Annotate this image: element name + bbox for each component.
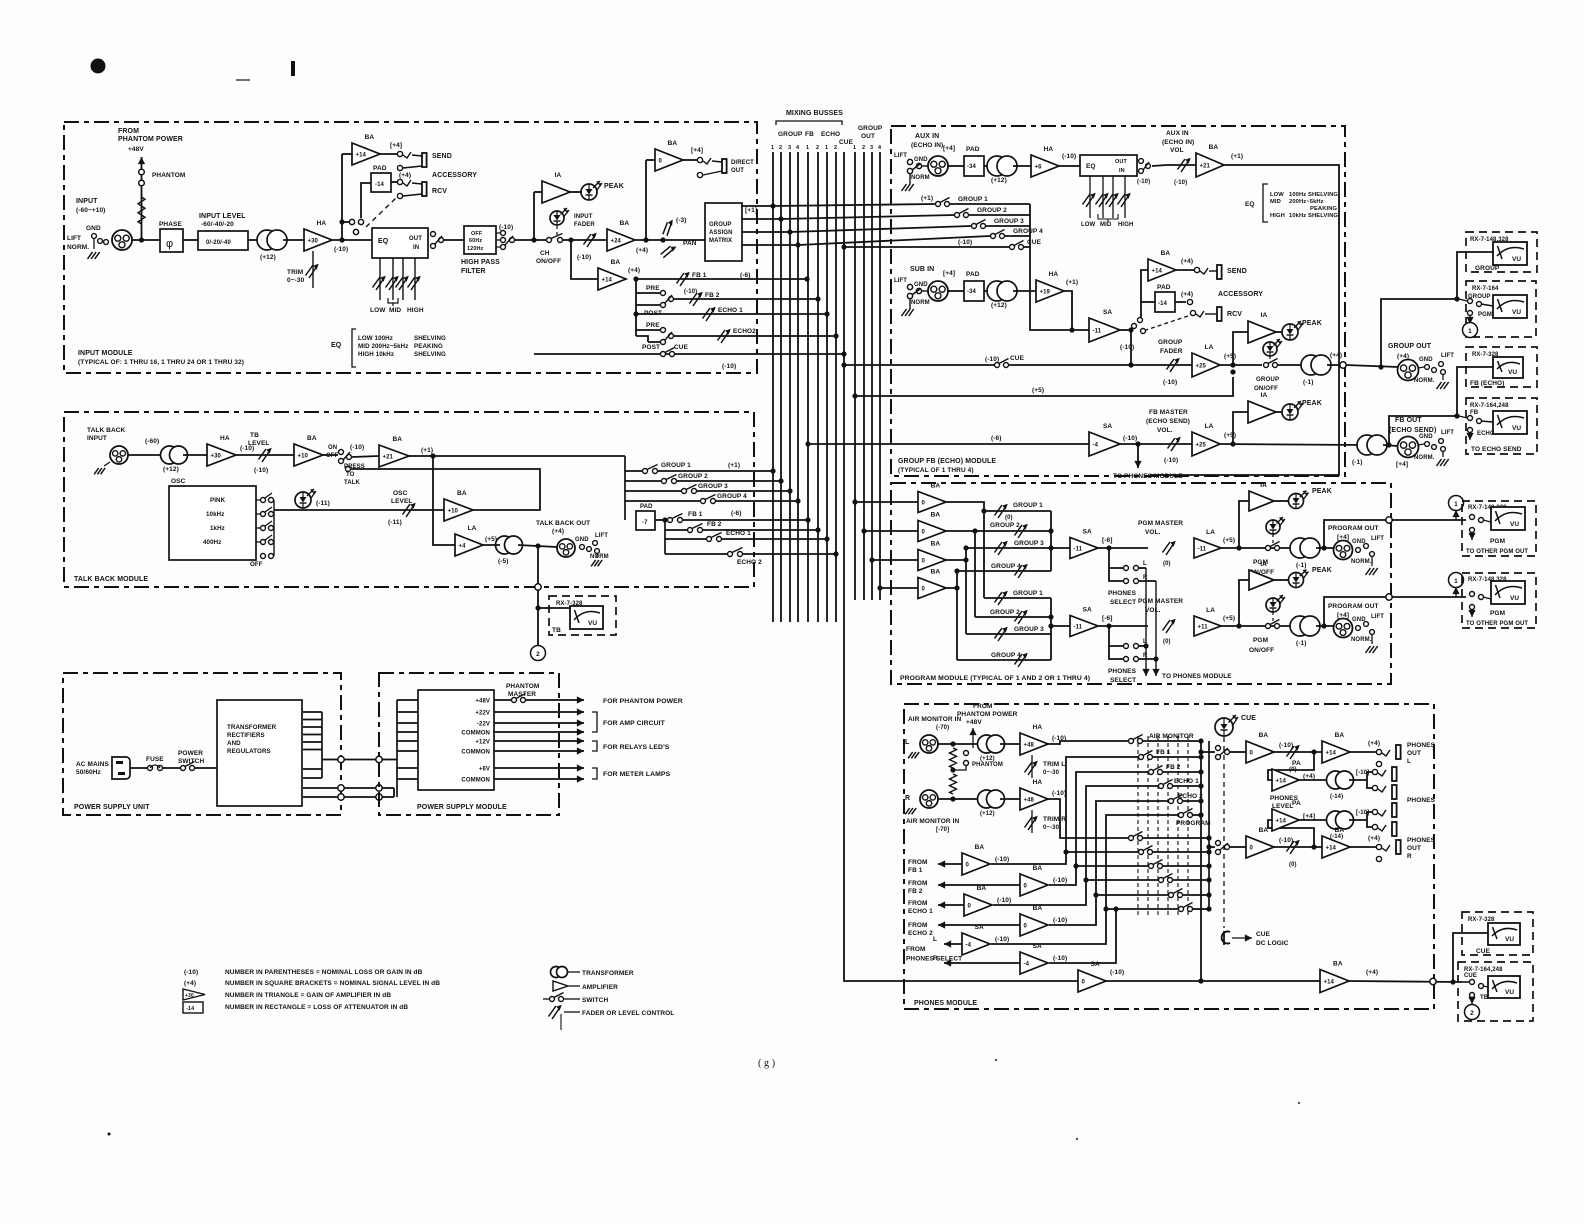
svg-text:SELECT: SELECT xyxy=(1110,599,1136,606)
svg-text:BA: BA xyxy=(975,844,985,851)
amp SA program 2 xyxy=(1070,607,1113,637)
switch tb FB 2 xyxy=(688,521,722,533)
wire aux out loop xyxy=(1150,165,1339,475)
svg-text:[+4]: [+4] xyxy=(390,142,402,149)
switch osc OFF xyxy=(250,554,274,569)
svg-text:-4: -4 xyxy=(966,942,972,948)
meter VU tb xyxy=(552,606,603,634)
meter VU group/pgm xyxy=(1493,295,1527,318)
svg-text:(+12): (+12) xyxy=(991,302,1007,309)
label tb group1 +1 xyxy=(728,462,740,469)
switch phones L AIR MONITOR xyxy=(1129,733,1194,744)
block input level attenuator xyxy=(198,231,248,250)
node circled 1 pgm 1 xyxy=(1449,496,1464,511)
amp BA2 +24 xyxy=(607,220,648,254)
connector sub in XLR xyxy=(928,270,955,301)
node direct out branch xyxy=(643,237,648,242)
svg-text:REGULATORS: REGULATORS xyxy=(227,748,271,755)
stray dash xyxy=(236,79,250,81)
meterbox RX-7-164,248 CUE xyxy=(1458,962,1533,1021)
svg-text:BA: BA xyxy=(668,140,678,147)
svg-text:ON/OFF: ON/OFF xyxy=(536,258,561,265)
svg-text:2: 2 xyxy=(1470,1010,1474,1017)
svg-text:GROUP 4: GROUP 4 xyxy=(991,652,1021,659)
fader ECHO1 xyxy=(703,307,744,321)
svg-text:CH: CH xyxy=(540,250,550,257)
svg-text:LIFT: LIFT xyxy=(595,533,608,539)
bus FB 2 xyxy=(817,152,819,622)
svg-text:[-70]: [-70] xyxy=(936,827,949,833)
label PHONES jacks xyxy=(1407,797,1436,804)
wire fb meter feed xyxy=(1389,413,1460,445)
jack RCV sleeve xyxy=(397,193,422,198)
svg-text:PRE: PRE xyxy=(646,322,660,329)
wire pgm2 row GROUP 1 xyxy=(984,597,1051,599)
label POST echo2 xyxy=(642,344,660,351)
svg-text:(+5): (+5) xyxy=(1224,432,1236,439)
connector GROUP OUT XLR xyxy=(1398,360,1419,381)
svg-text:MID 200Hz~5kHz: MID 200Hz~5kHz xyxy=(358,343,408,350)
wire circled arrow 2 xyxy=(1452,587,1459,597)
amp LA fb +25 xyxy=(1192,423,1236,456)
svg-text:(+4): (+4) xyxy=(552,528,564,535)
amp IA fb xyxy=(1248,392,1276,423)
wire air L to HA xyxy=(1000,743,1020,745)
amp BA tb2 +21 xyxy=(379,436,433,467)
bus ECHO 1 xyxy=(826,152,828,622)
stray handwriting xyxy=(758,1058,775,1069)
ground group out xyxy=(1437,382,1449,389)
svg-text:BA: BA xyxy=(620,220,630,227)
led channel on indicator xyxy=(550,208,569,225)
amp BA sub send +14 xyxy=(1148,250,1193,281)
svg-text:RCV: RCV xyxy=(1227,311,1242,318)
label air monitor R xyxy=(905,795,959,833)
svg-text:SHELVING: SHELVING xyxy=(414,335,446,342)
svg-text:+4: +4 xyxy=(459,543,467,549)
svg-text:MID: MID xyxy=(1100,222,1112,228)
svg-text:POWER SUPPLY UNIT: POWER SUPPLY UNIT xyxy=(74,804,150,811)
svg-text:FB MASTER: FB MASTER xyxy=(1149,409,1188,416)
svg-text:PHONES: PHONES xyxy=(1108,590,1137,597)
jack phones upper a xyxy=(1372,767,1396,781)
switch pgm out lift 2 xyxy=(1356,622,1375,644)
wire cue to mix xyxy=(1009,364,1131,366)
fader PAN upper xyxy=(660,217,687,237)
amp SA program 1 xyxy=(1070,529,1113,559)
svg-text:FROM: FROM xyxy=(118,128,139,135)
label for phantom power xyxy=(603,698,683,705)
bus GROUP OUT 2 xyxy=(863,152,865,600)
wire psu stub 7 xyxy=(303,768,322,770)
node psu out a xyxy=(338,756,344,762)
switch osc 10kHz xyxy=(256,507,274,517)
bracket EQ aux mid xyxy=(1098,214,1118,222)
svg-text:IN: IN xyxy=(1119,168,1125,174)
svg-text:(-5): (-5) xyxy=(498,558,509,565)
svg-text:PGM: PGM xyxy=(1490,610,1505,617)
svg-text:(-10): (-10) xyxy=(997,897,1011,904)
svg-text:PRE: PRE xyxy=(646,285,660,292)
switch tb ECHO 2 xyxy=(728,548,763,567)
meter VU cue xyxy=(1476,923,1520,955)
wire cue fader row xyxy=(841,355,1024,368)
fader TRIM L xyxy=(1025,755,1066,778)
svg-text:FB 2: FB 2 xyxy=(908,888,923,895)
wire psm out 723 xyxy=(494,719,584,726)
amp HA air R +48 xyxy=(1020,779,1066,810)
wire LA2 out xyxy=(1221,623,1294,628)
fader EQ MID a xyxy=(386,258,399,300)
svg-text:+6V: +6V xyxy=(479,767,490,773)
block EQ aux xyxy=(1080,155,1137,176)
fader pgm2 GROUP 2 xyxy=(990,609,1028,624)
svg-text:BA: BA xyxy=(1259,732,1269,739)
svg-text:+48V: +48V xyxy=(475,699,490,705)
bracket mixing busses xyxy=(776,121,842,125)
wire tb row GROUP 1 xyxy=(625,468,776,473)
svg-text:1: 1 xyxy=(825,145,828,151)
svg-text:ECHO2: ECHO2 xyxy=(733,328,756,335)
svg-text:MID: MID xyxy=(389,307,401,314)
switch phones L FB 2 xyxy=(1149,764,1181,775)
wire program input 4 xyxy=(877,585,918,590)
svg-text:TALK BACK: TALK BACK xyxy=(87,427,126,434)
wire xfmr to HA aux xyxy=(1013,165,1031,167)
svg-text:GROUP 1: GROUP 1 xyxy=(661,462,691,469)
svg-text:FUSE: FUSE xyxy=(146,756,164,763)
svg-text:DIRECT: DIRECT xyxy=(731,160,754,166)
svg-text:(-10): (-10) xyxy=(1053,877,1067,884)
wire matrix out 3 to bus/select xyxy=(741,226,971,235)
svg-text:GROUP 3: GROUP 3 xyxy=(698,483,728,490)
svg-text:NUMBER IN SQUARE BRACKETS = NO: NUMBER IN SQUARE BRACKETS = NOMINAL SIGN… xyxy=(225,980,440,987)
wire collector to L select xyxy=(1198,749,1215,754)
svg-text:200Hz~5kHz: 200Hz~5kHz xyxy=(1289,199,1324,205)
svg-text:BA: BA xyxy=(1259,827,1269,834)
wire from echo2 xyxy=(908,921,1020,937)
jack SEND sleeve xyxy=(397,165,477,179)
svg-text:VOL.: VOL. xyxy=(1145,529,1161,536)
svg-text:+12V: +12V xyxy=(475,740,490,746)
svg-text:GROUP: GROUP xyxy=(778,131,803,138)
switch aux select GROUP 3 xyxy=(972,218,1025,229)
label talk back out xyxy=(536,520,590,535)
wire pad to rcv xyxy=(391,172,411,182)
wire pgm1 row GROUP 4 xyxy=(957,570,1051,572)
svg-text:LIFT: LIFT xyxy=(1371,536,1384,542)
svg-text:NORM.: NORM. xyxy=(1351,559,1372,565)
svg-text:(-1): (-1) xyxy=(1296,562,1307,569)
bus GROUP OUT 1 xyxy=(854,152,856,600)
fader EQ HIGH xyxy=(407,258,424,314)
wire pad feed xyxy=(361,183,371,218)
wire phones R row 1 xyxy=(1143,835,1212,840)
label sub in xyxy=(910,266,934,273)
svg-text:(-10): (-10) xyxy=(1120,344,1134,351)
wire tb contact arrow xyxy=(1468,997,1475,1004)
svg-text:FADER: FADER xyxy=(574,222,595,228)
svg-text:SA: SA xyxy=(1103,309,1112,316)
svg-text:POWER SUPPLY MODULE: POWER SUPPLY MODULE xyxy=(417,804,507,811)
svg-text:-22V: -22V xyxy=(477,722,490,728)
svg-text:(-6): (-6) xyxy=(731,510,742,517)
amp BA program 4 xyxy=(918,569,946,599)
svg-text:FROM: FROM xyxy=(908,900,928,907)
svg-text:OFF: OFF xyxy=(471,231,483,237)
label pgm master vol 2 xyxy=(1138,598,1183,614)
wire cue to BA xyxy=(1106,980,1320,982)
svg-text:SEND: SEND xyxy=(1227,268,1247,275)
svg-text:ON/OFF: ON/OFF xyxy=(1249,647,1274,654)
wire HA to EQ aux xyxy=(1059,165,1080,167)
svg-text:SA: SA xyxy=(1083,607,1092,614)
svg-text:HIGH 10kHz: HIGH 10kHz xyxy=(358,351,394,358)
node input fader branch xyxy=(568,237,573,242)
wire fb send branch xyxy=(571,240,598,279)
svg-text:(-10): (-10) xyxy=(995,856,1009,863)
svg-text:FROM: FROM xyxy=(908,859,928,866)
svg-text:(ECHO SEND): (ECHO SEND) xyxy=(1146,418,1190,425)
svg-text:50/60Hz: 50/60Hz xyxy=(76,769,102,776)
svg-text:TO OTHER PGM OUT: TO OTHER PGM OUT xyxy=(1466,549,1528,555)
wire psm out 712 xyxy=(494,708,584,715)
legend EQ input module xyxy=(331,329,446,367)
svg-text:(-10): (-10) xyxy=(1062,153,1076,160)
svg-text:OFF: OFF xyxy=(326,453,339,459)
fader AUX VOL xyxy=(1167,158,1196,186)
wire BA1 fan xyxy=(946,502,987,598)
wire matrix out 2 to bus/select xyxy=(741,215,954,222)
wire EQ aux out xyxy=(1152,165,1167,166)
switch tb GROUP 1 xyxy=(643,462,692,474)
switch phones L FB 1 xyxy=(1139,749,1171,760)
switch group insert xyxy=(1132,318,1143,329)
svg-text:VOL.: VOL. xyxy=(1157,427,1173,434)
bus GROUP OUT 4 xyxy=(879,152,881,600)
block PAD tb -7 xyxy=(636,504,655,530)
jack DIRECT OUT xyxy=(697,157,754,177)
svg-text:ECHO: ECHO xyxy=(821,131,840,138)
svg-text:(-10): (-10) xyxy=(1164,457,1178,464)
svg-text:RX-7-328: RX-7-328 xyxy=(1468,917,1495,923)
meterbox RX-7-328 CUE xyxy=(1462,912,1533,955)
label fb master vol xyxy=(1146,409,1190,434)
switch osc 1kHz xyxy=(256,521,274,531)
svg-text:(-10): (-10) xyxy=(1163,379,1177,386)
svg-text:ACCESSORY: ACCESSORY xyxy=(1218,291,1263,298)
meterbox RX pgm 1 xyxy=(1462,501,1536,556)
meterbox RX-7-328 FB xyxy=(1466,347,1537,387)
svg-text:VOL: VOL xyxy=(1170,147,1184,154)
svg-text:VU: VU xyxy=(1510,595,1519,602)
wire tb la feed xyxy=(433,456,455,545)
wire HPF to CH switch xyxy=(514,239,547,241)
wire ba L fader xyxy=(1274,749,1322,754)
svg-text:LIFT: LIFT xyxy=(894,278,907,284)
connector FB OUT XLR xyxy=(1398,437,1419,458)
connector AIR MON L XLR xyxy=(920,735,938,753)
amp BA aux +21 xyxy=(1196,144,1243,177)
svg-text:SA: SA xyxy=(1033,943,1042,950)
switch osc PINK xyxy=(256,493,274,503)
svg-text:(+12): (+12) xyxy=(163,466,179,473)
svg-text:NORM.: NORM. xyxy=(1414,378,1435,384)
svg-text:FB 1: FB 1 xyxy=(908,867,923,874)
switch pgm meter 2 xyxy=(1470,592,1492,610)
fader pgm1 GROUP 1 xyxy=(995,502,1044,518)
svg-text:LIFT: LIFT xyxy=(894,153,907,159)
label tb level xyxy=(248,432,269,447)
svg-text:PEAK: PEAK xyxy=(1312,488,1332,495)
svg-text:-34: -34 xyxy=(967,164,977,170)
legend parentheses xyxy=(184,969,423,976)
wire to phones arrows xyxy=(1142,568,1232,680)
svg-text:NORM.: NORM. xyxy=(1414,455,1435,461)
svg-text:0~-30: 0~-30 xyxy=(1043,825,1060,831)
svg-text:FOR RELAYS LED'S: FOR RELAYS LED'S xyxy=(603,744,670,751)
svg-text:[+4]: [+4] xyxy=(943,145,955,152)
svg-text:TRANSFORMER: TRANSFORMER xyxy=(227,724,277,731)
wire sub to SA xyxy=(1064,291,1072,330)
amp BA from fb1 xyxy=(962,844,1009,875)
legend transformer xyxy=(551,967,634,978)
svg-text:HA: HA xyxy=(220,435,230,442)
fader TRIM R xyxy=(1025,810,1067,833)
svg-text:VU: VU xyxy=(1510,521,1519,528)
led PEAK group xyxy=(1282,320,1322,340)
fader FB2 xyxy=(690,292,720,306)
switch tb GROUP 4 xyxy=(701,493,748,504)
wire tb row GROUP 3 xyxy=(625,488,793,493)
svg-text:L: L xyxy=(933,936,937,943)
wire program input 3 xyxy=(869,557,918,562)
wire aux xlr to pad xyxy=(948,165,964,167)
input module label xyxy=(78,350,244,366)
svg-text:PHONES MODULE: PHONES MODULE xyxy=(914,1000,977,1007)
wire air R to HA xyxy=(1000,798,1020,800)
jack phones lower b xyxy=(1372,822,1396,836)
svg-text:1: 1 xyxy=(806,145,809,151)
svg-text:TRANSFORMER: TRANSFORMER xyxy=(582,970,634,977)
svg-text:TB: TB xyxy=(552,627,561,634)
switch aux lift xyxy=(907,159,929,184)
svg-text:CUE: CUE xyxy=(674,344,689,351)
fader TB LEVEL xyxy=(236,448,294,474)
svg-text:AIR MONITOR IN: AIR MONITOR IN xyxy=(906,818,959,825)
block EQ input xyxy=(372,228,428,258)
svg-text:GROUP 3: GROUP 3 xyxy=(1014,626,1044,633)
wire pgm feed L xyxy=(991,815,1178,944)
svg-text:IA: IA xyxy=(1261,392,1268,399)
amp BA program 1 xyxy=(918,483,946,513)
svg-text:LA: LA xyxy=(1206,607,1215,614)
svg-text:(+4): (+4) xyxy=(1303,773,1315,780)
switch press to talk xyxy=(339,450,365,487)
svg-text:GND: GND xyxy=(1419,357,1433,363)
block PAD sub2 -14 xyxy=(1155,284,1175,312)
wire psu stub 5 xyxy=(303,741,322,743)
connector PROGRAM OUT XLR 1 xyxy=(1328,525,1379,560)
switch aux select GROUP 2 xyxy=(955,207,1008,218)
node pan xyxy=(660,237,665,242)
wire program input 1 xyxy=(852,499,918,504)
label tb out gnd xyxy=(575,533,609,560)
svg-text:(+4): (+4) xyxy=(399,172,411,179)
svg-text:SA: SA xyxy=(1103,423,1112,430)
wire tb meter drop xyxy=(535,546,549,645)
ground tb out xyxy=(591,560,602,566)
group fb module label xyxy=(898,458,996,474)
svg-text:-4: -4 xyxy=(1024,961,1030,967)
switch HPF select xyxy=(496,231,515,250)
svg-text:BA: BA xyxy=(1335,827,1345,834)
switch tb FB 1 xyxy=(668,511,703,523)
svg-text:GROUP: GROUP xyxy=(858,125,883,132)
wire from fb1 xyxy=(908,859,962,874)
connector aux in XLR xyxy=(928,145,955,176)
svg-text:(+4): (+4) xyxy=(1368,835,1380,842)
node psm in b xyxy=(376,785,382,791)
label high pass filter xyxy=(461,224,513,275)
wire cue select xyxy=(841,244,1030,249)
svg-text:SA: SA xyxy=(1083,529,1092,536)
wire group vu feed xyxy=(1457,252,1493,299)
svg-text:TALK BACK MODULE: TALK BACK MODULE xyxy=(74,576,148,583)
svg-text:(+4): (+4) xyxy=(1181,258,1193,265)
svg-text:FROM: FROM xyxy=(908,922,928,929)
svg-text:BA: BA xyxy=(931,512,941,519)
svg-text:FB 1: FB 1 xyxy=(688,511,703,518)
svg-text:GROUP 3: GROUP 3 xyxy=(1014,540,1044,547)
led pgm on 2 xyxy=(1266,595,1285,612)
phones module frame xyxy=(904,704,1434,1009)
switch aux select GROUP 4 xyxy=(991,228,1044,239)
svg-text:(+5): (+5) xyxy=(1032,387,1044,394)
wire psu stub 8 xyxy=(303,777,322,779)
svg-text:DC LOGIC: DC LOGIC xyxy=(1256,940,1289,947)
wire IA2 feed xyxy=(1239,580,1249,626)
block phase xyxy=(159,221,183,252)
svg-text:PEAK: PEAK xyxy=(604,183,624,190)
amp SA sub -11 xyxy=(1089,309,1134,351)
svg-text:L: L xyxy=(1143,561,1147,567)
svg-text:1: 1 xyxy=(1454,501,1458,508)
bus FB 1 xyxy=(807,152,809,622)
svg-text:-11: -11 xyxy=(1198,546,1207,552)
svg-text:+14: +14 xyxy=(1276,818,1287,824)
svg-text:TO: TO xyxy=(346,472,355,478)
svg-text:0: 0 xyxy=(1250,750,1254,756)
meterbox RX pgm 2 xyxy=(1462,573,1536,628)
connector AC MAINS xyxy=(112,757,130,779)
svg-text:(-10): (-10) xyxy=(1174,180,1187,186)
svg-text:0: 0 xyxy=(922,558,926,564)
svg-text:PAD: PAD xyxy=(373,165,387,172)
svg-text:TO PHONES MODULE: TO PHONES MODULE xyxy=(1113,473,1183,480)
wire psu trunk c xyxy=(303,788,394,797)
svg-text:1: 1 xyxy=(853,145,856,151)
transformer T fb out xyxy=(1352,435,1387,466)
wire tb fbecho collector xyxy=(664,520,666,554)
svg-text:FROM: FROM xyxy=(906,946,926,953)
wire phones R row 2 xyxy=(1153,849,1212,854)
label osc PINK xyxy=(210,497,226,504)
wire psu comb spine xyxy=(321,712,323,778)
label pgm fader 0 xyxy=(1005,515,1013,521)
svg-text:+19: +19 xyxy=(1040,289,1051,295)
ground pgm out 2 xyxy=(1366,646,1378,653)
